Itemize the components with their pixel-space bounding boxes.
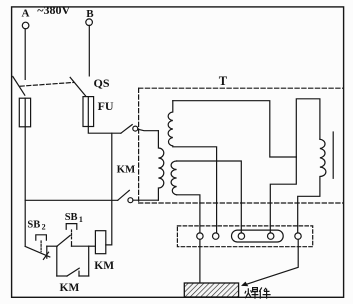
svg-text:FU: FU — [98, 99, 114, 113]
svg-text:KM: KM — [94, 260, 114, 272]
svg-text:SB: SB — [65, 212, 78, 223]
svg-text:KM: KM — [60, 282, 80, 294]
svg-text:B: B — [86, 8, 94, 20]
svg-text:T: T — [219, 74, 228, 88]
svg-text:A: A — [22, 8, 30, 20]
svg-text:QS: QS — [94, 76, 110, 90]
svg-text:KM: KM — [117, 163, 136, 175]
svg-text:2: 2 — [42, 222, 46, 231]
svg-text:1: 1 — [79, 215, 83, 224]
svg-text:SB: SB — [27, 220, 40, 231]
svg-text:~380V: ~380V — [37, 3, 70, 17]
